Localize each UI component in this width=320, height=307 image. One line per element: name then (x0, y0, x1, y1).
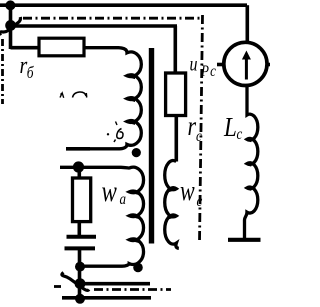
core bar (149, 48, 154, 244)
node dot second bus (5, 20, 16, 31)
svg-text:r: r (188, 112, 197, 142)
faint label b subscript mark (114, 129, 123, 143)
winding w_b with input wire (66, 48, 141, 149)
wire terminal 3 (62, 296, 151, 300)
label L_c (223, 112, 237, 142)
screen frame dash-dot top (23, 17, 200, 20)
screen frame dash-dot left (1, 39, 4, 104)
break squiggle top-left (0, 17, 20, 36)
source arrow shaft (245, 56, 248, 80)
wire terminal 2 (80, 282, 150, 286)
source arrow head (242, 51, 251, 60)
resistor r_c (166, 73, 186, 116)
wire rc to winding wc (175, 115, 179, 162)
svg-text:Pc: Pc (200, 63, 217, 80)
label w_c (180, 174, 195, 207)
junction dot control branch (73, 161, 84, 172)
screen frame dash-dot bottom (94, 288, 171, 291)
wire top bus (0, 3, 247, 7)
svg-text:w: w (102, 174, 118, 208)
svg-text:w: w (180, 174, 195, 207)
faint tick mark (116, 122, 118, 126)
capacitor plate bottom (65, 246, 96, 250)
node dot top-left on top bus (5, 0, 15, 10)
svg-text:L: L (223, 112, 237, 142)
label r_b (20, 51, 34, 82)
svg-text:c: c (197, 193, 203, 210)
capacitor plate top (67, 235, 97, 239)
source left tick (217, 63, 223, 67)
wire w_b bottom lead stub (66, 147, 90, 151)
junction dot 1 (75, 262, 85, 272)
junction dot 2 (75, 278, 86, 289)
wire second bus (11, 24, 178, 28)
wire box to capacitor (78, 222, 82, 236)
winding w_a coil with top lead (60, 167, 144, 266)
svg-text:c: c (196, 128, 202, 145)
resistor r_b (39, 38, 84, 56)
winding cusp wedges (126, 74, 136, 79)
svg-text:u: u (190, 53, 198, 75)
screen frame dash-dot right (200, 15, 203, 242)
polarity dot w_b (132, 148, 141, 157)
wire second bus corner down (174, 26, 178, 73)
label u_Pc (190, 53, 198, 75)
label r_c (188, 112, 197, 142)
faint dot mark (107, 133, 109, 135)
inductor L_c with top wire (245, 86, 258, 239)
source right tick (267, 63, 270, 67)
junction dot 3 (75, 294, 85, 304)
label w_a (102, 174, 118, 208)
wire dot to box (78, 167, 82, 178)
faint label wb mark arc (73, 92, 87, 98)
wire left vertical (9, 5, 13, 49)
wire capacitor down (78, 248, 82, 300)
break squiggle bottom (62, 273, 89, 291)
winding w_c (165, 161, 179, 249)
resistor box control (73, 178, 91, 222)
svg-text:c: c (237, 126, 243, 143)
wire Lc top vertical (246, 5, 250, 42)
screen frame dash-dot bottom left stub (54, 285, 61, 288)
svg-text:a: a (120, 191, 126, 208)
polarity dot w_a coil (133, 263, 143, 273)
current source circle (224, 42, 267, 85)
wire to resistor rb (11, 46, 41, 50)
faint label wb mark lambda (60, 93, 64, 98)
terminal bar Lc (228, 238, 261, 242)
